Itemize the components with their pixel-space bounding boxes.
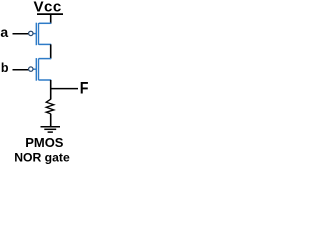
svg-text:F: F xyxy=(80,80,89,98)
transistor Q2 PMOS (input b) xyxy=(29,58,52,81)
resistor R1 pull-down xyxy=(46,99,54,114)
transistor Q1 PMOS (input a) xyxy=(29,23,52,46)
wire Q1 drain to Q2 source xyxy=(50,44,52,58)
wire input a to Q1 gate bubble xyxy=(13,33,29,35)
svg-text:b: b xyxy=(1,61,9,75)
wire resistor to ground xyxy=(50,114,52,127)
svg-text:NOR gate: NOR gate xyxy=(14,150,70,164)
wire output node to F xyxy=(51,88,78,90)
power rail Vcc bar xyxy=(37,13,63,15)
wire input b to Q2 gate bubble xyxy=(13,69,29,71)
wire Q2 drain to resistor (output node) xyxy=(50,80,52,100)
ground symbol xyxy=(41,127,61,132)
svg-text:a: a xyxy=(0,24,8,40)
svg-text:PMOS: PMOS xyxy=(25,135,64,150)
wire Vcc rail to Q1 source xyxy=(50,14,52,24)
